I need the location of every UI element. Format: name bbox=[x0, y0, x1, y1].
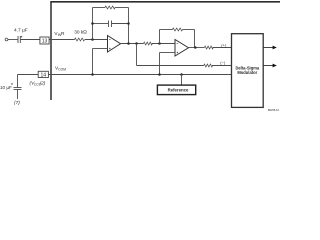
node A2 output junction bbox=[194, 46, 197, 49]
pin box 14 bbox=[38, 71, 48, 78]
resistor plus input bbox=[204, 46, 213, 49]
wire A2 feedback top with resistor bbox=[160, 28, 195, 31]
svg-text:(7): (7) bbox=[14, 100, 20, 106]
wire C1 to pin box 13 bbox=[20, 39, 40, 41]
wire A1 output bbox=[121, 43, 144, 45]
svg-text:COM: COM bbox=[58, 67, 66, 71]
wire reference to rail bbox=[181, 75, 183, 86]
wire input to C1 bbox=[8, 39, 18, 41]
wire R30k to op-amp A1 inverting input bbox=[85, 39, 108, 41]
chip boundary left edge bbox=[50, 1, 52, 106]
node A1 output branch junction bbox=[135, 42, 138, 45]
svg-text:Reference: Reference bbox=[168, 88, 189, 93]
capacitor 10uF plates bbox=[14, 88, 22, 90]
wire A1 feedback capacitor branch bbox=[93, 23, 129, 25]
output arrow 2 bbox=[263, 64, 277, 68]
wire A2 feedback right vertical bbox=[194, 30, 196, 48]
wire pin14 to bypass cap bbox=[18, 75, 39, 88]
plus mark of 10uF cap bbox=[11, 83, 13, 85]
node A1 output feedback junction bbox=[127, 42, 130, 45]
svg-text:14: 14 bbox=[41, 73, 47, 79]
wire A1 non-inverting input bbox=[93, 49, 108, 75]
label VCCO/2 bbox=[30, 80, 46, 86]
node rail A2 bbox=[158, 73, 161, 76]
label VINR bbox=[54, 31, 65, 37]
op-amp A1 bbox=[108, 36, 121, 53]
node A2 inverting input junction bbox=[158, 42, 161, 45]
VCOM rail wire bbox=[48, 74, 231, 76]
pin box 13 bbox=[40, 37, 49, 45]
wire A1 feedback right vertical bbox=[128, 8, 130, 44]
capacitor A1 feedback plates bbox=[109, 21, 112, 28]
node feedback cap left bbox=[91, 22, 94, 25]
chip boundary top edge bbox=[51, 1, 280, 3]
delta-sigma modulator box bbox=[232, 34, 264, 108]
resistor interstage bbox=[144, 42, 153, 45]
svg-text:B0265-01: B0265-01 bbox=[268, 109, 279, 112]
capacitor C 4.7uF plates bbox=[18, 36, 20, 43]
label VCOM bbox=[55, 65, 66, 71]
svg-text:30 kΩ: 30 kΩ bbox=[74, 30, 87, 36]
wire plus resistor to modulator bbox=[213, 47, 232, 49]
svg-text:(−): (−) bbox=[220, 60, 226, 65]
output arrow 1 bbox=[263, 46, 277, 50]
wire A2 feedback left vertical bbox=[159, 30, 161, 44]
node feedback cap right bbox=[127, 22, 130, 25]
svg-text:R: R bbox=[61, 31, 65, 37]
svg-text:4.7 µF: 4.7 µF bbox=[14, 27, 28, 33]
wire minus branch vertical bbox=[136, 44, 138, 66]
reference box bbox=[157, 85, 195, 95]
op-amp A2 bbox=[175, 40, 189, 57]
svg-text:(+): (+) bbox=[221, 42, 227, 47]
node rail A1 bbox=[91, 73, 94, 76]
wire 10uF to node 7 bbox=[17, 90, 19, 100]
svg-text:13: 13 bbox=[42, 39, 48, 45]
input terminal circle bbox=[5, 38, 8, 41]
wire minus resistor to modulator bbox=[212, 65, 232, 67]
wire A2 output to plus resistor bbox=[189, 47, 205, 49]
node rail reference bbox=[180, 73, 183, 76]
svg-text:Modulator: Modulator bbox=[237, 70, 257, 75]
svg-text:10 µF: 10 µF bbox=[0, 85, 12, 90]
svg-text:/2): /2) bbox=[39, 80, 46, 86]
wire A2 non-inverting input bbox=[160, 53, 176, 75]
wire A1 feedback top with resistor bbox=[93, 6, 129, 9]
resistor minus input bbox=[204, 64, 213, 67]
wire minus branch horizontal bbox=[137, 65, 204, 67]
node A1 inverting input junction bbox=[91, 38, 94, 41]
wire pin13 to R 30k bbox=[49, 39, 74, 41]
resistor 30 kOhm bbox=[74, 30, 87, 41]
plus mark of 4.7uF cap bbox=[21, 36, 23, 38]
wire interstage R to A2 inverting input bbox=[152, 43, 175, 45]
wire A1 feedback left vertical bbox=[92, 8, 94, 40]
